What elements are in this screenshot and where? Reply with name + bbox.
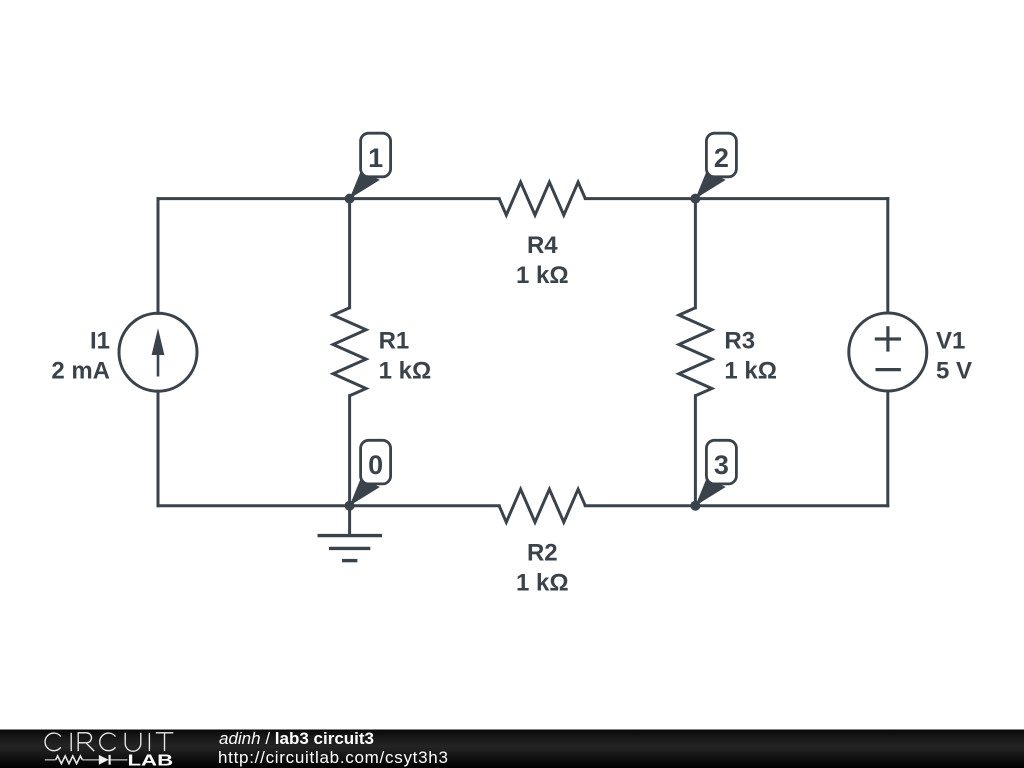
svg-text:2 mA: 2 mA bbox=[51, 357, 110, 384]
svg-text:V1: V1 bbox=[936, 327, 965, 354]
wire: left rail upper (corner to I1 top) bbox=[157, 199, 160, 314]
wire: R2 right lead to node 3 bbox=[585, 504, 695, 507]
voltage source V1 minus sign bbox=[876, 368, 901, 371]
label R3 1 kΩ bbox=[724, 327, 777, 384]
resistor R1 bbox=[333, 308, 366, 396]
svg-text:1 kΩ: 1 kΩ bbox=[379, 357, 432, 384]
svg-text:0: 0 bbox=[368, 450, 383, 480]
current source I1 arrow bbox=[152, 328, 165, 376]
svg-text:R1: R1 bbox=[379, 327, 410, 354]
wire: right rail lower (V1 bottom to corner) bbox=[886, 391, 889, 506]
wire: R4 right lead to node 2 bbox=[585, 197, 695, 200]
CircuitLab logo wordmark CIRCUIT bbox=[45, 733, 173, 751]
wire: R3 bottom lead (to node 3) bbox=[694, 396, 697, 506]
label V1 5 V bbox=[936, 327, 972, 384]
wire: node 1 to R4 left lead bbox=[350, 197, 500, 200]
svg-text:1 kΩ: 1 kΩ bbox=[516, 262, 569, 289]
label I1 2 mA bbox=[51, 327, 110, 384]
wire: node 0 to R2 left lead bbox=[350, 504, 500, 507]
footer bar bbox=[0, 730, 1024, 768]
node 2 callout bbox=[695, 133, 736, 198]
junction node 3 bbox=[690, 501, 700, 511]
label R1 1 kΩ bbox=[379, 327, 432, 384]
svg-text:1 kΩ: 1 kΩ bbox=[516, 569, 569, 596]
label R4 1 kΩ bbox=[516, 232, 569, 289]
current source I1 circle bbox=[119, 313, 197, 391]
wire: left rail lower (I1 bottom to corner) bbox=[157, 391, 160, 506]
svg-text:1: 1 bbox=[368, 143, 383, 173]
label R2 1 kΩ bbox=[516, 539, 569, 596]
svg-text:3: 3 bbox=[714, 450, 729, 480]
wire: bottom rail, I1 to node 0 bbox=[158, 504, 350, 507]
voltage source V1 plus sign bbox=[875, 326, 901, 351]
svg-text:5 V: 5 V bbox=[936, 357, 972, 384]
svg-text:I1: I1 bbox=[90, 327, 110, 354]
svg-text:http://circuitlab.com/csyt3h3: http://circuitlab.com/csyt3h3 bbox=[218, 748, 449, 767]
junction node 0 bbox=[345, 501, 355, 511]
wire: node 2 to top-right corner bbox=[695, 197, 887, 200]
wire: R1 bottom lead (to node 0) bbox=[348, 396, 351, 506]
resistor R3 bbox=[679, 308, 712, 396]
wire: R1 top lead (node 1 down) bbox=[348, 199, 351, 308]
node 1 callout bbox=[350, 133, 391, 198]
voltage source V1 circle bbox=[849, 313, 927, 391]
junction node 2 bbox=[690, 194, 700, 204]
resistor R4 bbox=[499, 182, 585, 215]
svg-text:R4: R4 bbox=[527, 232, 558, 259]
wire: top rail, I1 to node 1 bbox=[158, 197, 350, 200]
node 3 callout bbox=[695, 440, 736, 505]
wire: right rail upper (corner to V1 top) bbox=[886, 199, 889, 313]
svg-text:adinh / lab3 circuit3: adinh / lab3 circuit3 bbox=[219, 729, 374, 748]
wire: node 3 to bottom-right corner bbox=[695, 504, 887, 507]
ground symbol at node 0 bbox=[318, 506, 383, 561]
svg-text:R3: R3 bbox=[724, 327, 755, 354]
CircuitLab logo doodle: resistor zigzag bbox=[56, 756, 83, 764]
node 0 callout bbox=[350, 440, 391, 505]
svg-text:2: 2 bbox=[714, 143, 729, 173]
svg-text:LAB: LAB bbox=[128, 752, 174, 768]
svg-text:R2: R2 bbox=[527, 539, 558, 566]
svg-text:1 kΩ: 1 kΩ bbox=[724, 357, 777, 384]
junction node 1 bbox=[345, 194, 355, 204]
wire: R3 top lead (node 2 down) bbox=[694, 199, 697, 308]
CircuitLab logo doodle: wire bbox=[45, 759, 128, 761]
resistor R2 bbox=[499, 489, 585, 522]
CircuitLab logo doodle: diode bbox=[99, 755, 110, 765]
